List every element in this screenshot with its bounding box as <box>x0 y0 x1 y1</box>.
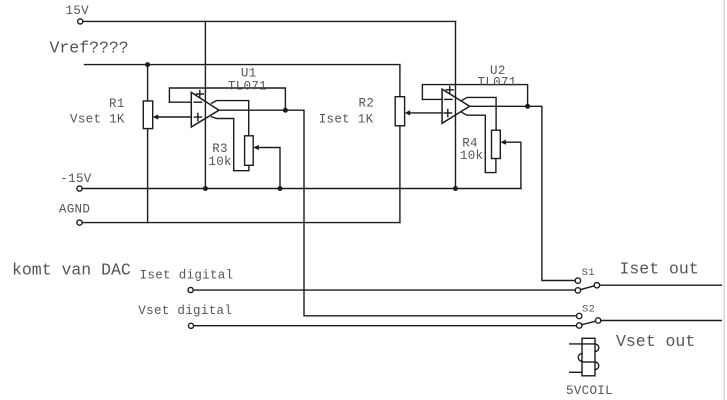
svg-text:Vref????: Vref???? <box>50 38 129 57</box>
svg-text:AGND: AGND <box>59 202 90 216</box>
node junction U1 supply on -15V <box>203 186 208 191</box>
svg-text:-15V: -15V <box>60 172 91 186</box>
svg-text:TL071: TL071 <box>478 75 517 89</box>
resistor R4 body <box>492 130 501 158</box>
svg-text:R2: R2 <box>359 96 375 110</box>
wiper arrow R1 <box>153 114 159 119</box>
node -15V terminal <box>77 186 82 191</box>
wire R3 wiper to -15V <box>258 148 281 189</box>
svg-text:komt van DAC: komt van DAC <box>12 260 131 279</box>
svg-text:R1: R1 <box>109 97 125 111</box>
wire AGND rail <box>82 222 400 224</box>
op-amp U2 -in mark <box>445 98 452 100</box>
wire U2 feedback loop <box>422 85 527 107</box>
resistor R1 body <box>143 101 152 129</box>
wire U1 output down to S2 <box>219 110 577 316</box>
wire Iset digital to S1 <box>193 289 575 291</box>
wire U2 output down to S1 <box>470 106 576 280</box>
node 15V terminal <box>78 19 83 24</box>
wire Iset out <box>600 284 722 286</box>
wire U1 offset null pin1 to R3 top <box>212 101 249 136</box>
switch S1 <box>575 278 599 293</box>
op-amp U1 -in mark <box>194 101 201 103</box>
op-amp U1 V+ mark <box>196 91 203 98</box>
node junction R3 wiper on -15V <box>278 186 283 191</box>
wire U1 offset null pin5 to R3 bottom <box>212 117 249 171</box>
wire U1 feedback loop <box>169 88 285 110</box>
svg-text:Vset 1K: Vset 1K <box>70 112 125 126</box>
op-amp U2 <box>442 89 470 123</box>
wire U1 V+ to V- vertical <box>204 21 206 188</box>
wire U1 -in <box>169 101 191 103</box>
svg-text:10k: 10k <box>460 149 483 163</box>
wire U2 offset null pin1 to R4 top <box>462 97 496 130</box>
wiper arrow R4 <box>500 140 506 145</box>
svg-text:5VCOIL: 5VCOIL <box>566 384 613 398</box>
op-amp U1 <box>191 92 219 127</box>
resistor R2 body <box>395 97 404 126</box>
node AGND terminal <box>77 220 82 225</box>
svg-text:TL071: TL071 <box>228 79 267 93</box>
wire 15V rail <box>83 20 456 22</box>
wire R2 wiper to U2 +in <box>409 112 442 114</box>
svg-text:Iset out: Iset out <box>620 259 699 278</box>
window edge right border <box>723 0 725 400</box>
svg-text:Iset 1K: Iset 1K <box>319 112 374 126</box>
wire R2 bottom lead to AGND <box>399 126 401 223</box>
wiper arrow R3 <box>253 145 259 150</box>
svg-text:S1: S1 <box>582 267 595 279</box>
wire -15V rail <box>82 188 521 190</box>
node Vset digital terminal <box>188 323 193 328</box>
wire U2 V+ to V- vertical <box>455 21 457 188</box>
svg-text:15V: 15V <box>66 4 90 18</box>
svg-text:Vset out: Vset out <box>616 332 695 351</box>
op-amp U1 +in mark <box>194 114 201 121</box>
relay coil K1 5VCOIL <box>570 338 599 376</box>
wire U2 -in <box>422 98 442 100</box>
node Iset digital terminal <box>188 287 193 292</box>
node junction U2 output feedback <box>525 104 530 109</box>
op-amp U2 V+ mark <box>446 86 453 93</box>
wire R4 wiper to -15V end <box>505 142 521 188</box>
wire Vset digital to S2 <box>194 325 577 327</box>
svg-text:Vset digital: Vset digital <box>138 304 232 318</box>
wire R1 top lead <box>147 65 149 101</box>
wire Vref rail <box>85 64 400 66</box>
node junction U1 output feedback <box>283 108 288 113</box>
wire Vset out <box>601 320 721 322</box>
svg-text:U1: U1 <box>241 67 257 81</box>
resistor R3 body <box>245 136 254 166</box>
wire R2 top lead <box>399 65 401 97</box>
svg-text:Iset digital: Iset digital <box>140 269 234 283</box>
svg-text:10k: 10k <box>208 155 231 169</box>
switch S2 <box>577 313 601 328</box>
op-amp U2 +in mark <box>444 109 451 116</box>
svg-text:S2: S2 <box>582 303 595 315</box>
wire U2 offset null pin5 to R4 bottom <box>462 113 496 173</box>
wiper arrow R2 <box>405 110 411 115</box>
wire R1 bottom lead to AGND <box>147 129 149 223</box>
node junction R1 top <box>145 62 150 67</box>
node junction U2 supply on -15V <box>453 186 458 191</box>
wire R1 wiper to U1 +in <box>157 116 191 118</box>
